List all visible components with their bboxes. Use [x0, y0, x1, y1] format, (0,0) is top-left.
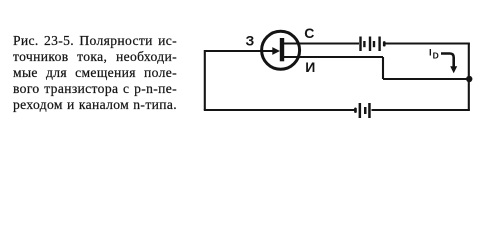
svg-text:З: З: [246, 32, 255, 48]
svg-text:И: И: [305, 59, 315, 75]
battery GB2 bottom: plate tall 2: [368, 103, 371, 118]
battery GB1 top: plate tall 2: [369, 37, 371, 52]
label ID current: [429, 47, 439, 60]
wire left vertical: [204, 50, 206, 110]
battery GB2 bottom: plate tall 1: [359, 103, 362, 118]
battery GB1 top: plate tall 3: [378, 37, 380, 52]
label З gate: [246, 32, 255, 48]
wire source lower horizontal: [383, 78, 469, 80]
wire right vertical: [468, 44, 470, 111]
wire source step down: [382, 57, 384, 79]
svg-text:С: С: [304, 25, 314, 41]
label И source: [305, 59, 315, 75]
battery GB2 bottom: terminal wedge: [354, 108, 357, 113]
svg-text:I: I: [429, 47, 432, 58]
battery GB1 top: plate short 1: [363, 41, 365, 47]
wire drain right of battery: [385, 42, 470, 44]
battery GB2 bottom: plate short 1: [364, 107, 367, 114]
wire source: [284, 56, 383, 58]
wire gate: [205, 50, 273, 52]
gate arrowhead: [272, 47, 280, 55]
svg-text:D: D: [433, 50, 439, 60]
label С drain: [304, 25, 314, 41]
wire drain: [284, 42, 359, 44]
junction node: [466, 76, 472, 82]
battery GB1 top: plate short 2: [373, 41, 375, 47]
wire bottom right: [372, 109, 470, 111]
wire bottom left: [204, 109, 355, 111]
caption text: [13, 33, 177, 113]
current arrow ID: [441, 54, 457, 74]
battery GB1 top: terminal wedge: [383, 41, 386, 46]
transistor VT1 n-channel JFET circle: [262, 31, 300, 69]
battery GB1 top: plate tall 1: [359, 37, 361, 52]
transistor channel bar: [280, 38, 284, 61]
